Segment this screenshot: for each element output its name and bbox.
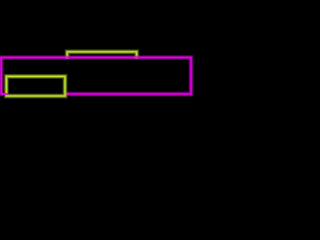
yellow box (bottom-left) interior fill: [7, 77, 64, 95]
yellow box (bottom-left) border: [6, 76, 65, 96]
black cover hiding magenta bottom edge behind yellow box: [3, 91, 66, 97]
yellow tab (top, three-sided): [67, 52, 136, 59]
magenta stub crossing yellow border at bottom-left: [1, 93, 8, 95]
magenta window outline: [1, 58, 191, 95]
